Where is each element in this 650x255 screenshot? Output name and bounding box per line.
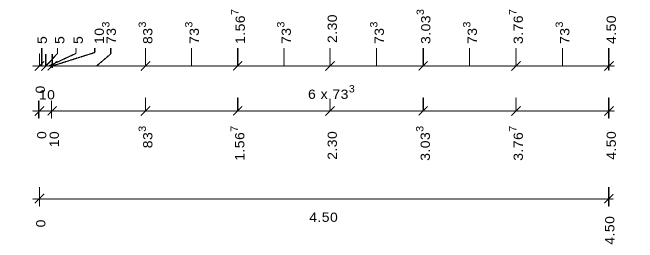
node 73-gap midpoint 2 (witness line): [191, 48, 193, 66]
node station 0 (middle tick): [38, 100, 40, 118]
node station 0.05 (top line tick): [45, 54, 47, 66]
wire - bottom dimension line: [33, 198, 614, 200]
node station 3.7667 (middle tick): [515, 98, 517, 112]
node station 4.50 (top line tick): [608, 48, 610, 71]
svg-text:733: 733: [554, 21, 573, 44]
svg-text:733: 733: [183, 21, 202, 44]
svg-text:4.50: 4.50: [603, 15, 619, 44]
svg-text:3.033: 3.033: [415, 125, 434, 160]
svg-text:6 x 733: 6 x 733: [308, 84, 355, 103]
svg-text:4.50: 4.50: [603, 131, 619, 160]
node station 2.30 (middle tick): [329, 99, 331, 112]
node 73-gap midpoint 4 (witness line): [376, 48, 378, 66]
node station 3.0333 (middle tick): [422, 98, 424, 112]
node station 4.50 (bottom tick): [608, 187, 610, 207]
node station 2.30 (top line tick): [329, 48, 331, 66]
svg-text:833: 833: [137, 21, 156, 44]
svg-text:1.567: 1.567: [229, 9, 248, 44]
svg-text:5: 5: [51, 36, 67, 44]
node station 0 (top line tick): [39, 53, 41, 66]
svg-text:733: 733: [368, 21, 387, 44]
svg-text:5: 5: [70, 36, 86, 44]
wire - top dimension line: [33, 65, 615, 67]
svg-text:733: 733: [100, 21, 119, 44]
node station 0.10 (top line tick): [51, 54, 53, 68]
node 73-gap midpoint 5 (witness line): [469, 48, 471, 66]
node station 0 (bottom tick): [39, 187, 41, 207]
svg-text:4.50: 4.50: [309, 209, 338, 225]
node station 4.50 (middle tick): [608, 98, 610, 119]
wire - middle dimension line: [33, 110, 615, 112]
svg-text:0: 0: [33, 219, 49, 227]
svg-text:10: 10: [46, 131, 62, 147]
svg-text:2.30: 2.30: [324, 131, 340, 160]
svg-text:5: 5: [34, 36, 50, 44]
svg-text:4.50: 4.50: [602, 216, 618, 245]
svg-text:3.767: 3.767: [508, 9, 527, 44]
svg-text:733: 733: [461, 21, 480, 44]
node station 3.76 (top line tick): [515, 48, 517, 66]
node 73-gap midpoint 6 (witness line): [561, 48, 563, 66]
svg-text:10: 10: [39, 86, 55, 102]
node station 10 (middle tick): [51, 100, 53, 118]
node station 3.03 (top line tick): [422, 48, 424, 66]
node station 83 (top line tick): [144, 48, 146, 66]
svg-text:3.033: 3.033: [415, 9, 434, 44]
node station 0.8333 (middle tick): [144, 98, 146, 112]
svg-text:733: 733: [276, 21, 295, 44]
svg-text:1.567: 1.567: [229, 125, 248, 160]
svg-text:2.30: 2.30: [324, 14, 340, 43]
svg-text:3.767: 3.767: [508, 125, 527, 160]
svg-text:833: 833: [137, 125, 156, 148]
node station 1.5667 (middle tick): [237, 98, 239, 112]
node 73-gap midpoint 3 (witness line): [283, 48, 285, 66]
node station 1.56 (top line tick): [237, 48, 239, 66]
